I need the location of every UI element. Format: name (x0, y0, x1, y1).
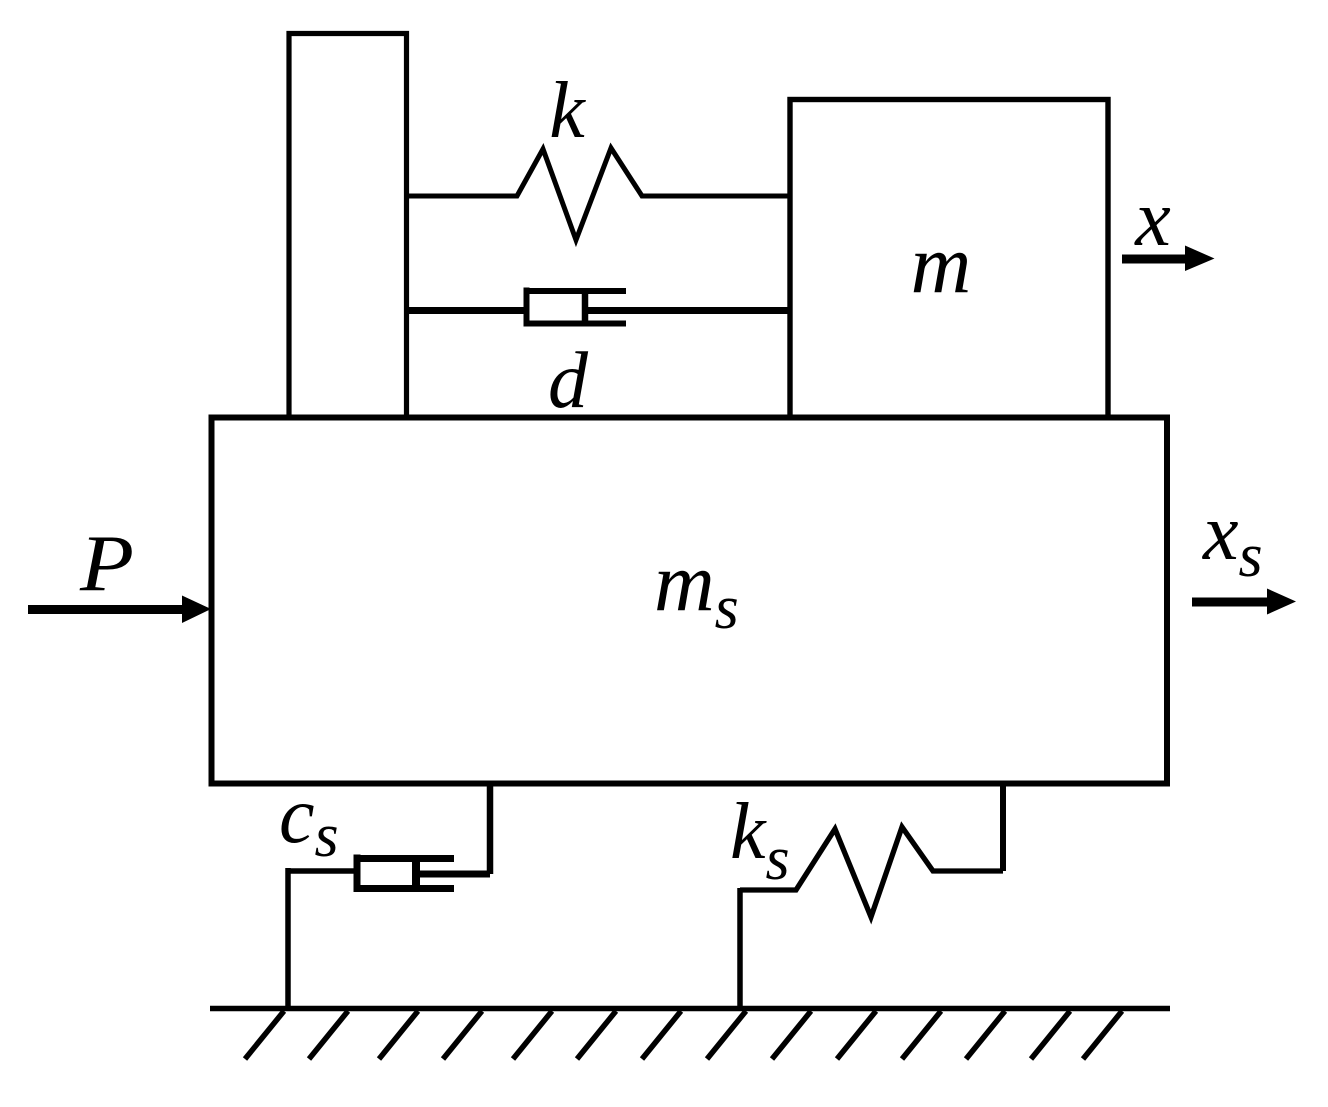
leg from ms to damper cs (487, 783, 494, 874)
mass m (790, 100, 1108, 418)
arrow x (1122, 246, 1215, 272)
svg-text:k: k (549, 67, 586, 155)
spring ks (740, 827, 1003, 917)
svg-text:xs: xs (1202, 489, 1263, 590)
arrow P (28, 596, 211, 624)
leg from spring ks to ground (737, 888, 743, 1008)
svg-text:P: P (79, 520, 134, 608)
ground line (210, 1006, 1170, 1012)
svg-text:ks: ks (730, 788, 790, 893)
mass ms (212, 418, 1168, 784)
svg-text:x: x (1134, 175, 1171, 263)
svg-text:ms: ms (654, 536, 739, 642)
svg-text:d: d (548, 337, 589, 425)
damper d (408, 288, 790, 327)
ground hatching (245, 1011, 1122, 1059)
arrow xs (1192, 589, 1296, 615)
svg-text:m: m (911, 218, 972, 311)
leg from ms to spring ks (1000, 783, 1006, 871)
damper cs (288, 855, 490, 1009)
spring k (408, 148, 790, 240)
wall support (fixed column) (289, 34, 407, 421)
svg-text:cs: cs (279, 772, 339, 870)
